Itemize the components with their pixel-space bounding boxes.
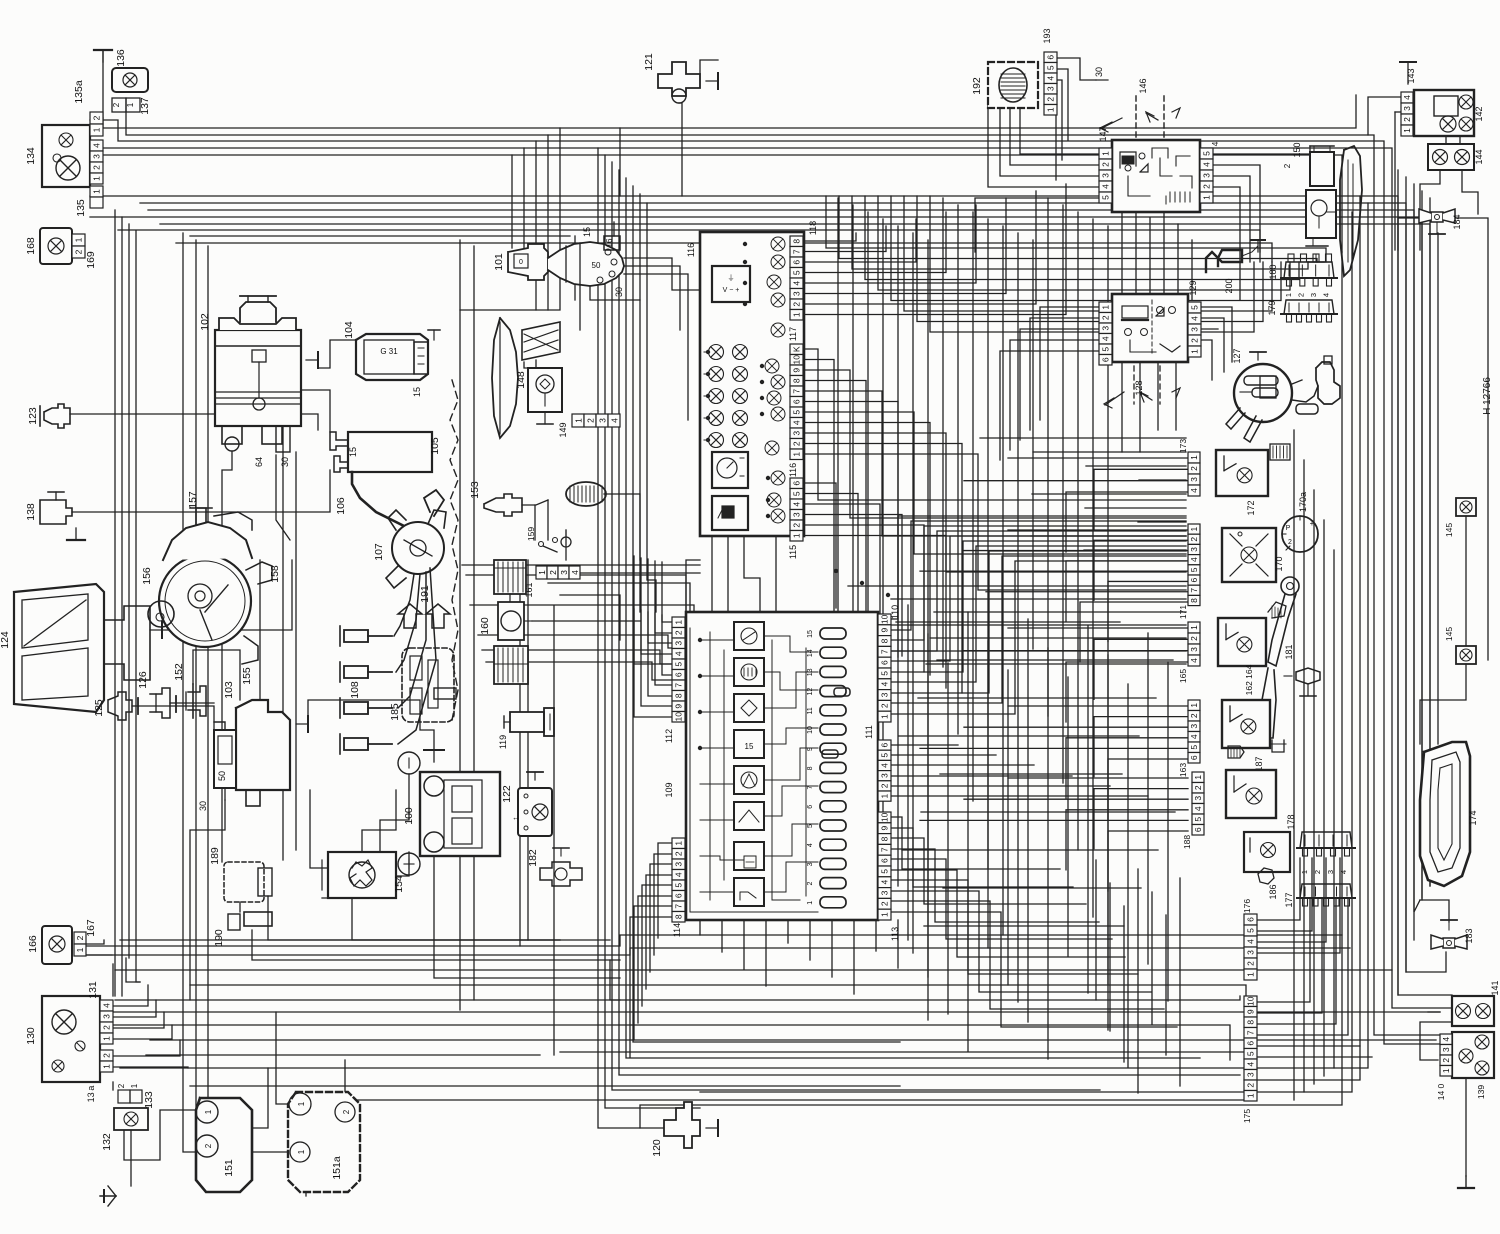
connectors 112 114 [672,617,685,922]
svg-text:1: 1 [102,1036,112,1041]
svg-text:1: 1 [102,1064,112,1069]
svg-text:138: 138 [25,503,37,521]
svg-text:5: 5 [792,491,802,496]
svg-text:4: 4 [1322,293,1331,297]
svg-text:3: 3 [792,291,802,296]
svg-text:2: 2 [674,851,684,856]
svg-text:141: 141 [1490,980,1500,995]
svg-text:2: 2 [1202,184,1212,189]
svg-text:107: 107 [373,543,385,561]
svg-text:2: 2 [1046,97,1056,102]
lamp unit 144 [1428,144,1484,170]
distributor 107 [373,490,446,588]
lighter 150 [1283,142,1362,276]
svg-text:5: 5 [1189,745,1199,750]
svg-text:1: 1 [674,620,684,625]
svg-text:9: 9 [880,628,890,633]
svg-text:8: 8 [674,914,684,919]
svg-text:3: 3 [1046,86,1056,91]
svg-text:135: 135 [75,199,87,217]
wire battery [308,700,620,978]
svg-text:148: 148 [515,371,527,389]
connector 178 [1286,814,1355,874]
svg-text:2: 2 [792,523,802,528]
svg-text:5: 5 [880,753,890,758]
svg-text:9: 9 [880,826,890,831]
wire relays [975,58,1310,460]
valve 184 [1419,209,1462,234]
svg-text:K: K [792,346,802,352]
svg-text:1: 1 [1190,349,1200,354]
svg-text:50: 50 [217,771,227,781]
washer pump 102 [199,296,318,467]
svg-text:2: 2 [1189,466,1199,471]
svg-text:200: 200 [1224,278,1234,293]
svg-text:4: 4 [1189,488,1199,493]
lamp unit 139 140 [1436,1032,1494,1100]
label 135a [73,80,85,104]
svg-text:10: 10 [807,726,814,734]
svg-text:1: 1 [92,176,102,181]
switch 122 [501,772,552,836]
svg-text:10: 10 [792,355,802,365]
svg-text:151a: 151a [331,1156,343,1180]
connector 177 [1284,884,1355,908]
svg-text:30: 30 [280,457,290,467]
svg-text:1: 1 [1193,775,1203,780]
svg-text:3: 3 [1101,173,1111,178]
svg-text:134: 134 [25,147,37,165]
svg-text:10: 10 [880,614,890,624]
battery 100 [398,750,500,875]
svg-text:4: 4 [1339,870,1348,874]
junction dots [698,242,890,758]
svg-text:15: 15 [348,447,358,457]
svg-text:109: 109 [664,782,674,797]
svg-text:3: 3 [92,154,102,159]
unit 151a [288,1092,360,1192]
wire left verticals [115,210,140,996]
svg-text:1: 1 [1300,870,1309,874]
svg-text:124: 124 [0,631,11,649]
svg-text:6: 6 [880,660,890,665]
connector 131 [86,981,113,1102]
svg-text:103: 103 [223,681,235,699]
svg-text:1: 1 [130,1083,139,1088]
wire mid band [462,494,700,680]
svg-text:172: 172 [1246,500,1256,515]
svg-text:151: 151 [223,1159,235,1177]
relay 129 [1098,280,1198,362]
svg-text:4: 4 [1189,658,1199,663]
svg-text:1: 1 [1284,293,1293,297]
svg-text:2: 2 [880,783,890,788]
svg-text:2: 2 [92,115,102,120]
wire bottom right [1257,97,1488,1176]
wire bottom bus [75,935,1440,1100]
svg-text:8: 8 [674,693,684,698]
svg-text:4: 4 [92,143,102,148]
svg-text:127: 127 [1232,348,1242,363]
svg-text:2: 2 [1193,785,1203,790]
svg-text:6: 6 [807,805,814,809]
svg-text:5: 5 [792,410,802,415]
svg-text:170a: 170a [1298,492,1308,512]
relay 147 pins [1099,141,1220,203]
svg-text:115: 115 [788,545,798,559]
svg-text:1: 1 [74,237,84,242]
wire mesh to switches [848,438,1186,664]
svg-text:102: 102 [199,313,211,331]
wiper motor 148 [492,318,562,438]
connector 179 [1267,300,1337,322]
svg-text:4: 4 [1189,557,1199,562]
svg-text:4: 4 [792,502,802,507]
svg-text:100: 100 [403,807,415,825]
svg-text:3: 3 [1189,647,1199,652]
fuel sender 153 [469,481,606,516]
svg-text:4: 4 [1202,162,1212,167]
svg-text:181: 181 [1284,644,1294,659]
svg-text:2: 2 [204,1143,213,1148]
svg-text:3: 3 [1246,1072,1256,1077]
connector 193 [1042,28,1057,115]
svg-text:6: 6 [792,481,802,486]
svg-text:157: 157 [187,491,199,509]
svg-text:144: 144 [1474,149,1484,164]
lamp unit 141 [1452,980,1500,1026]
svg-text:131: 131 [87,981,99,999]
svg-text:1: 1 [792,312,802,317]
svg-text:2: 2 [586,418,596,423]
svg-text:119: 119 [498,735,508,749]
svg-text:180: 180 [1268,264,1278,279]
svg-text:1: 1 [126,102,135,107]
svg-text:106: 106 [335,497,347,515]
svg-text:111: 111 [864,725,874,739]
switch 170 171 170a [1178,492,1318,619]
svg-text:2: 2 [342,1109,351,1114]
sender 126 [137,671,176,718]
spark plug leads 108 [340,626,392,754]
svg-text:7: 7 [880,847,890,852]
svg-text:1: 1 [92,127,102,132]
cluster connectors 115 117 118 [788,221,818,559]
ground bottom right [1458,1176,1474,1188]
wire fusebox right leads [891,516,1186,1027]
svg-text:188: 188 [1182,835,1192,849]
svg-text:2: 2 [1283,163,1292,168]
fuse 121 [643,53,718,103]
svg-text:4: 4 [1193,806,1203,811]
svg-text:↔: ↔ [512,813,520,822]
svg-text:3: 3 [102,1014,112,1019]
switch 164 165 [1178,602,1286,695]
svg-text:179: 179 [1267,300,1277,315]
svg-text:163: 163 [1178,763,1188,777]
svg-text:5: 5 [1246,1051,1256,1056]
svg-text:120: 120 [651,1139,663,1157]
svg-text:176: 176 [1242,899,1252,913]
svg-text:114: 114 [672,923,682,937]
svg-text:3: 3 [1101,326,1111,331]
svg-text:108: 108 [349,681,361,699]
svg-text:7: 7 [674,904,684,909]
svg-text:15: 15 [582,227,592,237]
svg-text:105: 105 [429,437,441,455]
svg-text:1: 1 [792,452,802,457]
lamp 168 [25,228,72,264]
svg-text:182: 182 [527,849,539,867]
svg-text:153: 153 [469,481,481,499]
svg-text:4: 4 [1190,316,1200,321]
ignition switch 101 [493,227,624,297]
switch 159 [526,527,571,552]
svg-text:145: 145 [1444,627,1454,641]
svg-text:2: 2 [1402,117,1412,122]
svg-text:2: 2 [1297,293,1306,297]
svg-text:4: 4 [102,1003,112,1008]
svg-text:2: 2 [1101,315,1111,320]
component 192 [971,62,1038,108]
svg-text:118: 118 [808,221,818,235]
svg-text:3: 3 [1326,870,1335,874]
svg-text:174: 174 [1468,810,1478,825]
svg-text:123: 123 [27,407,39,425]
svg-text:3: 3 [880,692,890,697]
svg-text:11: 11 [807,707,814,714]
ground (top left, for 136) [94,50,112,118]
svg-text:30: 30 [1094,67,1104,77]
svg-text:1: 1 [1101,305,1111,310]
svg-text:4: 4 [674,872,684,877]
wire second bus [90,196,1430,995]
svg-text:1: 1 [204,1109,213,1114]
connector 161 [524,566,580,598]
svg-text:8: 8 [1189,598,1199,603]
svg-text:6: 6 [674,893,684,898]
svg-text:4: 4 [1046,76,1056,81]
svg-text:6: 6 [880,742,890,747]
svg-text:143: 143 [1406,68,1416,83]
wire HT leads [394,568,436,744]
valve 183 [1431,920,1474,949]
svg-text:14 0: 14 0 [1436,1083,1446,1100]
wire nested right centre [826,196,1326,332]
svg-text:8: 8 [1246,1020,1256,1025]
svg-text:1: 1 [574,418,584,423]
connector 145 lower [1444,627,1476,664]
svg-text:5: 5 [807,824,814,828]
svg-text:129: 129 [1188,280,1198,295]
svg-text:166: 166 [27,935,39,953]
svg-text:168: 168 [25,237,37,255]
svg-text:1: 1 [674,841,684,846]
svg-text:3: 3 [807,862,814,866]
arrows 128 [1104,366,1180,408]
instrument cluster 116 [686,232,804,536]
svg-text:9: 9 [674,704,684,709]
svg-text:170: 170 [1274,556,1284,571]
svg-text:4: 4 [1101,184,1111,189]
svg-text:5: 5 [880,869,890,874]
lamp 136 [112,49,148,92]
switch 172 173 [1178,439,1290,516]
svg-text:6: 6 [1246,917,1256,922]
svg-text:1: 1 [1101,151,1111,156]
stalk 162 [1262,577,1299,738]
wire mesh verticals [838,198,1192,1020]
svg-text:G 31: G 31 [380,347,398,356]
svg-text:4: 4 [1246,1062,1256,1067]
wire switch feeders right [1294,430,1334,1100]
stabilizer 154 [322,852,405,898]
svg-text:160: 160 [479,617,491,635]
wire left mid [70,340,620,1000]
ignition lock 127 [1226,348,1340,442]
svg-text:139: 139 [1476,1085,1486,1099]
wire fusebox left leads [630,556,672,1057]
svg-text:4: 4 [807,843,814,847]
svg-text:4: 4 [792,281,802,286]
svg-text:4: 4 [1189,734,1199,739]
wire top bus [90,95,1452,1044]
wire cluster leads [803,184,1186,693]
arrows 146 [1100,78,1180,160]
svg-text:5: 5 [1189,567,1199,572]
svg-text:2: 2 [1189,537,1199,542]
svg-text:6: 6 [1189,577,1199,582]
sensor 152 [173,663,206,718]
svg-text:154: 154 [393,875,405,893]
svg-text:64: 64 [254,457,264,467]
fuse box 109 112 114 [664,612,878,937]
lamp 132 133 [101,1083,155,1151]
svg-text:30: 30 [614,287,624,297]
svg-text:4: 4 [792,420,802,425]
svg-text:2: 2 [1441,1058,1451,1063]
svg-text:3: 3 [674,862,684,867]
svg-text:125: 125 [93,699,105,717]
svg-text:2: 2 [1101,162,1111,167]
svg-text:5: 5 [792,270,802,275]
connector 149 [558,414,620,438]
svg-text:7: 7 [880,649,890,654]
svg-text:3: 3 [559,570,569,575]
relay 129 pins [1099,302,1201,365]
svg-text:190: 190 [213,929,225,947]
ground 143 [1400,62,1416,84]
svg-text:4: 4 [1402,95,1412,100]
svg-text:1: 1 [1189,526,1199,531]
component 182 [527,848,582,886]
svg-text:7: 7 [792,249,802,254]
svg-text:1: 1 [1189,703,1199,708]
relay 147 [1098,126,1200,212]
svg-text:2: 2 [880,703,890,708]
svg-text:1: 1 [1246,972,1256,977]
terminal 30 [1094,67,1108,80]
svg-text:3: 3 [880,773,890,778]
drawing number H 12766 [1482,377,1493,415]
svg-text:175: 175 [1242,1109,1252,1123]
svg-text:1: 1 [1046,107,1056,112]
component 119 [498,708,554,749]
svg-text:4: 4 [570,570,580,575]
svg-text:2: 2 [1189,636,1199,641]
svg-text:132: 132 [101,1133,113,1151]
svg-text:150: 150 [1292,142,1302,157]
blower 160 [479,560,532,684]
svg-text:2: 2 [1246,961,1256,966]
svg-text:5: 5 [1046,65,1056,70]
svg-text:135a: 135a [73,80,85,104]
svg-text:178: 178 [1286,814,1296,829]
svg-text:6: 6 [674,672,684,677]
lamp 166 [27,926,72,964]
svg-text:2: 2 [117,1083,126,1088]
svg-text:10: 10 [674,712,684,722]
svg-text:1: 1 [537,570,547,575]
wire enclosure lines [183,233,575,1196]
svg-text:7: 7 [674,683,684,688]
svg-text:8: 8 [807,766,814,770]
svg-text:189: 189 [209,847,221,865]
svg-text:8: 8 [880,836,890,841]
lamp unit 142 143 [1401,90,1484,136]
svg-text:2: 2 [807,882,814,886]
svg-text:2: 2 [92,165,102,170]
svg-text:116: 116 [686,243,696,257]
svg-text:5: 5 [880,671,890,676]
svg-text:126: 126 [137,671,149,689]
svg-text:5: 5 [1246,928,1256,933]
svg-text:12: 12 [807,688,814,696]
svg-text:128: 128 [1134,380,1144,395]
svg-text:4: 4 [880,763,890,768]
svg-text:1: 1 [880,714,890,719]
svg-text:6: 6 [1246,1041,1256,1046]
connector 176 [1242,899,1257,980]
svg-text:5: 5 [1193,817,1203,822]
svg-text:192: 192 [971,77,983,95]
wire bottom left [87,940,345,1192]
svg-text:130: 130 [25,1027,37,1045]
svg-text:133: 133 [143,1091,155,1109]
svg-text:1: 1 [1189,625,1199,630]
svg-text:1: 1 [297,1149,306,1154]
wire right switch leads [920,458,1188,891]
stalk 181 [1284,644,1320,696]
svg-text:2: 2 [792,441,802,446]
svg-text:142: 142 [1474,106,1484,121]
svg-text:116: 116 [788,463,798,477]
wire dashed separator [450,380,458,720]
svg-text:121: 121 [643,53,655,71]
svg-text:3: 3 [1189,547,1199,552]
switch 163 187 [1178,700,1286,777]
svg-text:2: 2 [1246,1083,1256,1088]
starter motor 103 [198,681,308,811]
svg-text:4: 4 [1210,141,1220,146]
svg-text:2: 2 [75,935,85,940]
connector 180 [1268,254,1337,297]
svg-text:V − +: V − + [723,287,740,294]
svg-text:8: 8 [880,638,890,643]
svg-text:3: 3 [1189,477,1199,482]
component 189 [209,847,272,902]
svg-text:6: 6 [1193,827,1203,832]
